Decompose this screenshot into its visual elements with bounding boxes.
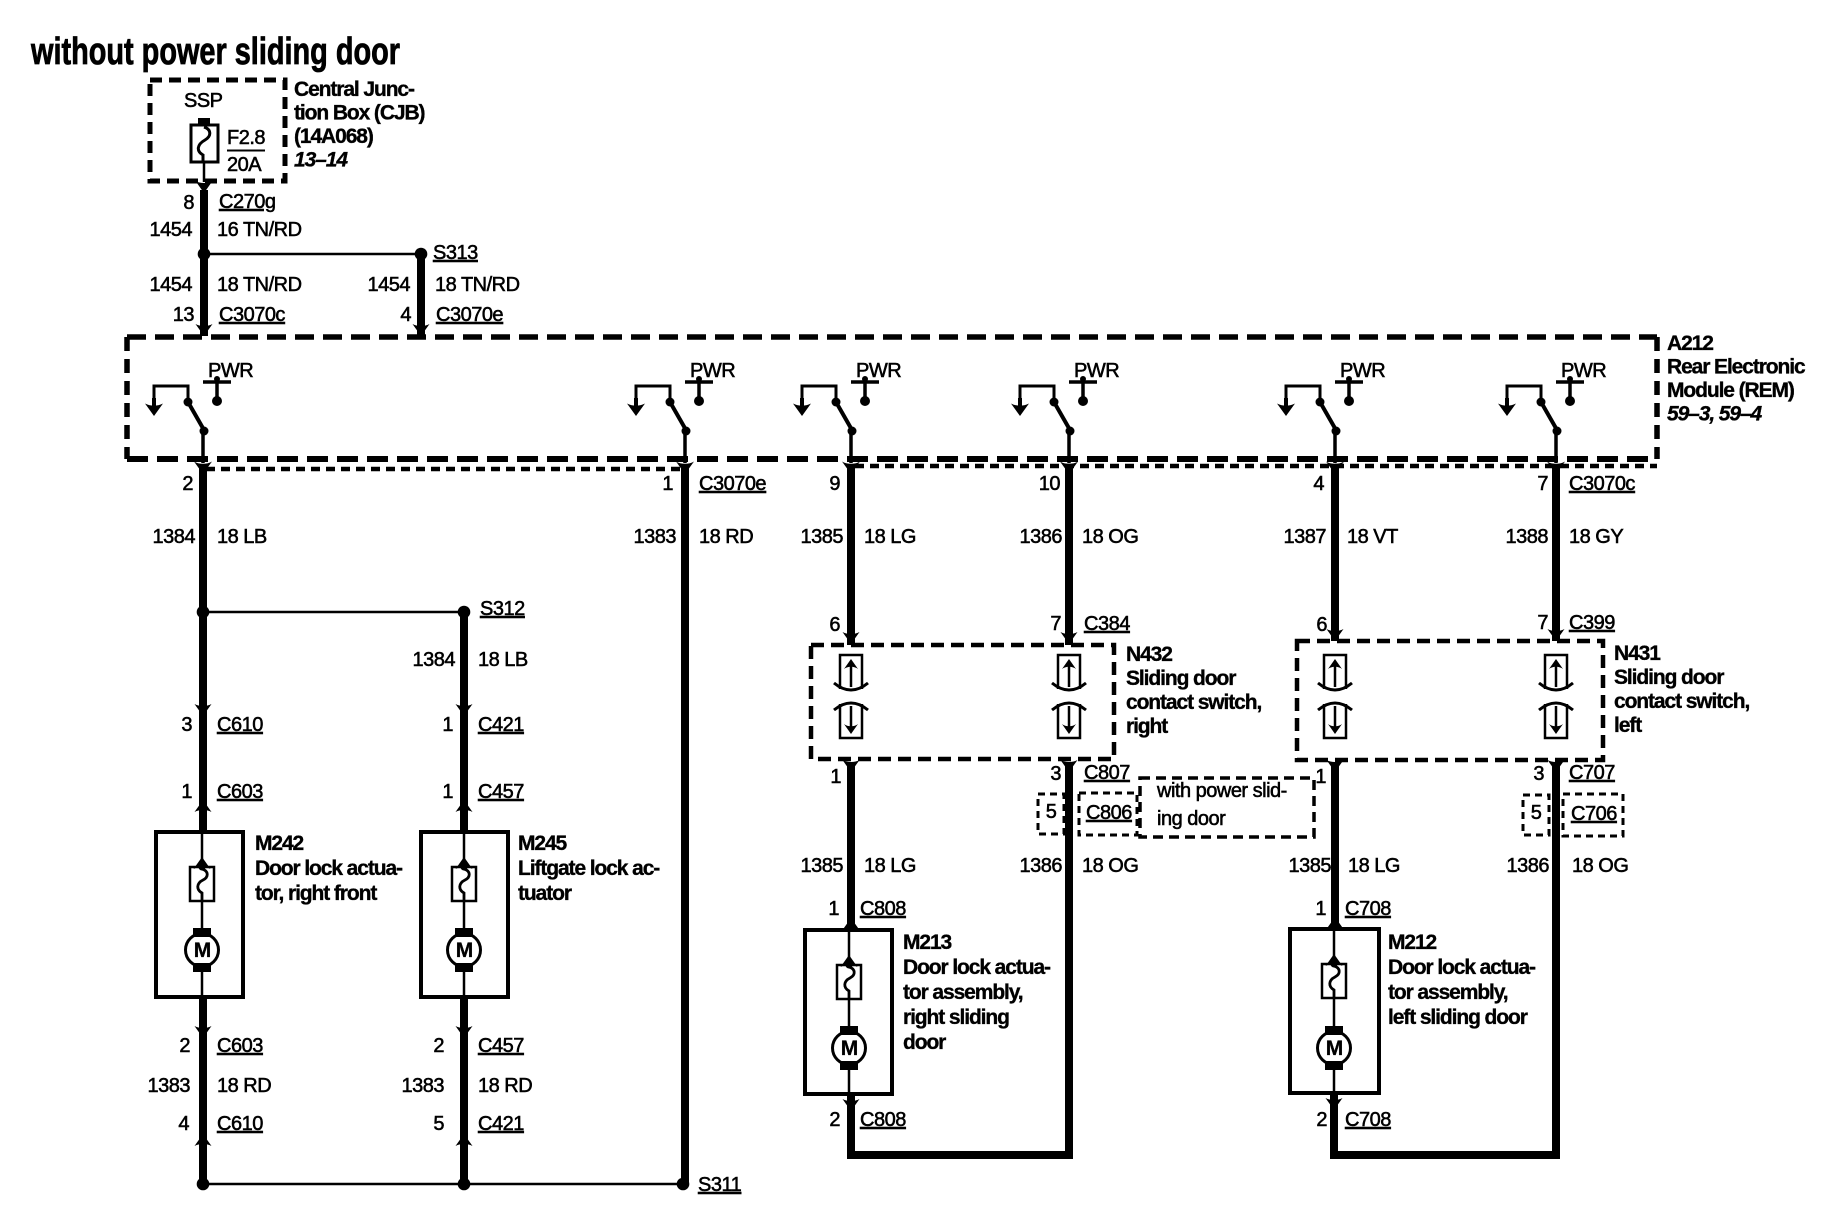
wire label 1387 18 VT	[1284, 526, 1399, 548]
wire 1454 16 TN/RD from CJB to REM	[200, 190, 208, 336]
svg-text:ing door: ing door	[1157, 808, 1226, 830]
N431 contact symbol left	[1318, 655, 1352, 738]
svg-text:Sliding door: Sliding door	[1614, 666, 1724, 689]
svg-text:1: 1	[442, 714, 453, 736]
M213 internal arrow	[841, 955, 858, 967]
svg-text:18 OG: 18 OG	[1082, 526, 1138, 548]
svg-text:C384: C384	[1084, 613, 1130, 635]
REM pin 7 connector C3070c	[1537, 473, 1635, 495]
PWR switch 5 in REM	[1277, 376, 1363, 474]
svg-text:N431: N431	[1614, 642, 1661, 665]
N432 pin 6	[829, 614, 840, 636]
M213 internal lead	[848, 930, 851, 966]
svg-text:C806: C806	[1086, 802, 1132, 824]
svg-text:7: 7	[1537, 473, 1548, 495]
CJB name label	[294, 78, 425, 172]
svg-text:5: 5	[1046, 801, 1057, 823]
N431 pin 7 connector C399	[1537, 612, 1615, 634]
connector 5 dashed box	[1038, 794, 1064, 834]
svg-text:9: 9	[829, 473, 840, 495]
arrow above S311 left	[195, 1134, 212, 1146]
wire label 1388 18 GY	[1506, 526, 1624, 548]
svg-text:C610: C610	[217, 714, 263, 736]
svg-text:right sliding: right sliding	[903, 1006, 1009, 1029]
junction dot left	[198, 248, 211, 261]
connector C706 dashed box	[1563, 794, 1623, 836]
wire label 1383 18 RD	[634, 526, 754, 548]
svg-text:7: 7	[1050, 613, 1061, 635]
svg-text:6: 6	[1316, 614, 1327, 636]
A212 Rear Electronic Module (REM) dashed box	[127, 337, 1657, 459]
M245 internal arrow	[456, 857, 473, 869]
PWR label 3	[856, 360, 901, 382]
wire label 1383 18 RD left	[148, 1075, 272, 1097]
pin 13 connector C3070c	[173, 304, 286, 326]
svg-text:18 LB: 18 LB	[478, 649, 528, 671]
svg-text:C807: C807	[1084, 762, 1130, 784]
arrow at C610	[195, 704, 212, 716]
junction dot at S312 left	[197, 606, 210, 619]
REM lower connector dashed line	[206, 467, 681, 472]
arrow above S311 mid	[456, 1134, 473, 1146]
svg-text:Module (REM): Module (REM)	[1667, 379, 1794, 402]
N432 contact symbol right	[1052, 655, 1086, 738]
M212 internal arrow	[1326, 954, 1343, 966]
N431 pin 6	[1316, 614, 1327, 636]
svg-text:1384: 1384	[153, 526, 196, 548]
svg-text:PWR: PWR	[208, 360, 253, 382]
fuse value label F2.8/20A	[227, 127, 265, 176]
wire 1383 18 RD below M242	[199, 997, 207, 1184]
svg-text:59–3, 59–4: 59–3, 59–4	[1667, 403, 1763, 426]
svg-text:C421: C421	[478, 1113, 524, 1135]
svg-text:2: 2	[433, 1035, 444, 1057]
wire 1387 18 VT from REM pin 4 to N431	[1331, 465, 1339, 641]
svg-text:1383: 1383	[402, 1075, 445, 1097]
wire 1385 18 LG from REM pin 9 to N432	[847, 465, 855, 645]
svg-text:C708: C708	[1345, 898, 1391, 920]
M242 motor M	[186, 928, 219, 972]
REM pin 4	[1313, 473, 1324, 495]
svg-text:20A: 20A	[227, 154, 262, 176]
svg-text:PWR: PWR	[690, 360, 735, 382]
M242 name label	[255, 832, 403, 905]
S312 label	[480, 598, 525, 620]
svg-text:SSP: SSP	[184, 90, 223, 112]
pin 8 connector C270g	[183, 191, 275, 214]
svg-text:tuator: tuator	[518, 882, 572, 905]
M245 lock solenoid	[452, 864, 476, 902]
svg-text:2: 2	[829, 1109, 840, 1131]
title	[30, 31, 400, 73]
svg-text:1454: 1454	[150, 219, 193, 241]
M212 lock solenoid	[1322, 961, 1346, 999]
svg-text:C3070e: C3070e	[436, 304, 503, 326]
wire label 1454 16 TN/RD	[150, 219, 302, 241]
REM name label A212	[1667, 332, 1806, 426]
PWR label 1	[208, 360, 253, 382]
svg-text:C3070c: C3070c	[1569, 473, 1635, 495]
S313 label	[433, 242, 478, 264]
svg-text:C603: C603	[217, 781, 263, 803]
svg-text:S311: S311	[698, 1174, 742, 1196]
PWR switch 3 in REM	[793, 376, 879, 474]
wire from N432 pin 3 down and around to M213	[851, 762, 1069, 1155]
svg-text:1383: 1383	[148, 1075, 191, 1097]
svg-text:contact switch,: contact switch,	[1126, 691, 1261, 714]
svg-text:M212: M212	[1388, 931, 1437, 954]
REM pin 2	[182, 473, 193, 495]
S313 branch wire down to REM	[417, 254, 425, 336]
svg-text:1: 1	[828, 898, 839, 920]
M212 lead solenoid to motor	[1333, 998, 1336, 1028]
svg-text:3: 3	[181, 714, 192, 736]
wire label 1384 18 LB branch	[413, 649, 528, 671]
svg-text:with power slid-: with power slid-	[1156, 780, 1287, 802]
arrow below M212	[1326, 1098, 1343, 1110]
svg-text:Sliding door: Sliding door	[1126, 667, 1236, 690]
REM pin 9	[829, 473, 840, 495]
svg-text:S312: S312	[480, 598, 525, 620]
M213 lock solenoid	[837, 962, 861, 1000]
svg-text:contact switch,: contact switch,	[1614, 690, 1749, 713]
pin 1 connector C421	[442, 714, 524, 736]
svg-text:door: door	[903, 1031, 946, 1054]
PWR label 5	[1340, 360, 1385, 382]
svg-text:F2.8: F2.8	[227, 127, 265, 149]
M245 name label	[518, 832, 660, 905]
svg-text:C421: C421	[478, 714, 524, 736]
svg-text:18 RD: 18 RD	[699, 526, 753, 548]
svg-text:18 GY: 18 GY	[1569, 526, 1623, 548]
pin 4 connector C610 lower	[178, 1113, 263, 1135]
M245 liftgate lock actuator box	[421, 832, 508, 997]
svg-text:2: 2	[1316, 1109, 1327, 1131]
M213 door lock actuator assembly box	[805, 930, 892, 1094]
pin 2 connector C603 lower	[179, 1035, 263, 1057]
svg-text:C808: C808	[860, 898, 906, 920]
svg-text:1: 1	[181, 781, 192, 803]
M242 internal arrow	[194, 857, 211, 869]
arrow into N432 pin 6	[843, 632, 860, 644]
PWR label 6	[1561, 360, 1606, 382]
svg-text:C610: C610	[217, 1113, 263, 1135]
arrow at C457	[456, 800, 473, 812]
svg-text:4: 4	[178, 1113, 189, 1135]
wire label 1385 18 LG right	[1289, 855, 1400, 877]
svg-text:M245: M245	[518, 832, 568, 855]
wire below N431 pin 1	[1331, 762, 1339, 929]
svg-text:5: 5	[1531, 802, 1542, 824]
S311 label	[698, 1174, 742, 1196]
splice S311 horizontal wire	[203, 1183, 685, 1186]
pin 4 connector C3070e	[400, 304, 503, 326]
arrow into N432 pin 7	[1061, 632, 1078, 644]
arrow below M242	[195, 1026, 212, 1038]
svg-text:5: 5	[433, 1113, 444, 1135]
svg-text:1: 1	[442, 781, 453, 803]
svg-text:1383: 1383	[634, 526, 677, 548]
wire 1383 18 RD below M245	[460, 997, 468, 1184]
wire label 1384 18 LB	[153, 526, 267, 548]
with power sliding door dashed note box	[1140, 778, 1314, 837]
arrow into N431 pin 7	[1548, 629, 1565, 641]
M212 motor M	[1318, 1026, 1351, 1070]
CJB label SSP	[184, 90, 223, 112]
svg-text:13–14: 13–14	[294, 149, 348, 172]
svg-text:1454: 1454	[150, 274, 193, 296]
fuse F2.8 20A	[191, 118, 218, 182]
wire 1454 18 TN/RD left branch	[150, 274, 302, 296]
svg-text:7: 7	[1537, 612, 1548, 634]
junction dot S311 mid	[458, 1178, 471, 1191]
svg-text:left: left	[1614, 714, 1642, 737]
svg-text:C399: C399	[1569, 612, 1615, 634]
connector C806 dashed box	[1079, 793, 1137, 835]
pin 5 connector C421 lower	[433, 1113, 524, 1135]
M242 lead motor to box bottom	[201, 970, 204, 997]
svg-text:1385: 1385	[801, 526, 844, 548]
M213 pin 1 connector C808	[828, 898, 906, 920]
svg-text:1386: 1386	[1020, 855, 1063, 877]
junction dot at S312 right	[458, 606, 471, 619]
wire label 1385 18 LG mid	[801, 855, 916, 877]
svg-text:1387: 1387	[1284, 526, 1327, 548]
svg-text:(14A068): (14A068)	[294, 125, 373, 148]
svg-text:16 TN/RD: 16 TN/RD	[217, 219, 302, 241]
PWR switch 1 in REM	[145, 376, 231, 474]
svg-text:10: 10	[1039, 473, 1061, 495]
N432 pin 1	[830, 766, 841, 788]
svg-text:M213: M213	[903, 931, 952, 954]
PWR switch 2 in REM	[627, 376, 713, 474]
M242 lock solenoid	[190, 864, 214, 902]
N432 sliding door contact switch box	[811, 645, 1114, 759]
svg-text:18 TN/RD: 18 TN/RD	[217, 274, 302, 296]
svg-text:18 OG: 18 OG	[1082, 855, 1138, 877]
svg-text:8: 8	[183, 192, 194, 214]
svg-text:1388: 1388	[1506, 526, 1549, 548]
N432 contact symbol left	[834, 655, 868, 738]
svg-text:S313: S313	[433, 242, 478, 264]
svg-text:right: right	[1126, 715, 1168, 738]
M245 internal lead	[463, 832, 466, 868]
arrow into REM at pin 13	[196, 324, 213, 336]
svg-text:Rear Electronic: Rear Electronic	[1667, 356, 1806, 379]
svg-text:Central Junc-: Central Junc-	[294, 78, 415, 101]
pin 2 connector C457 lower	[433, 1035, 524, 1057]
wire label 1386 18 OG mid	[1020, 855, 1139, 877]
M212 internal lead	[1333, 929, 1336, 965]
svg-text:1385: 1385	[1289, 855, 1332, 877]
svg-text:tion Box (CJB): tion Box (CJB)	[294, 102, 425, 125]
svg-text:18 RD: 18 RD	[478, 1075, 532, 1097]
N431 pin 1	[1315, 766, 1326, 788]
arrow below M245	[456, 1026, 473, 1038]
PWR label 4	[1074, 360, 1119, 382]
wire 1384 18 LB branch to M245	[460, 612, 468, 832]
svg-text:1: 1	[1315, 766, 1326, 788]
svg-text:C603: C603	[217, 1035, 263, 1057]
wire below N432 pin 1	[847, 762, 855, 930]
svg-text:1385: 1385	[801, 855, 844, 877]
svg-text:2: 2	[179, 1035, 190, 1057]
pin 1 connector C457	[442, 781, 524, 803]
svg-text:M242: M242	[255, 832, 304, 855]
svg-text:18 LG: 18 LG	[864, 526, 916, 548]
N432 pin 7 connector C384	[1050, 613, 1130, 635]
M212 lead motor to box bottom	[1333, 1068, 1336, 1093]
svg-text:18 RD: 18 RD	[217, 1075, 271, 1097]
M242 internal lead	[201, 832, 204, 868]
arrow into N431 pin 6	[1327, 629, 1344, 641]
M242 door lock actuator box	[156, 832, 243, 997]
svg-text:C808: C808	[860, 1109, 906, 1131]
svg-text:Door lock actua-: Door lock actua-	[903, 956, 1051, 979]
svg-text:C270g: C270g	[219, 191, 275, 213]
svg-text:PWR: PWR	[856, 360, 901, 382]
PWR label 2	[690, 360, 735, 382]
Central Junction Box (CJB) dashed box	[150, 80, 285, 181]
svg-text:C706: C706	[1571, 803, 1617, 825]
svg-text:2: 2	[182, 473, 193, 495]
svg-text:1: 1	[662, 473, 673, 495]
M213 motor M	[833, 1026, 866, 1070]
svg-text:18 OG: 18 OG	[1572, 855, 1628, 877]
svg-text:PWR: PWR	[1074, 360, 1119, 382]
N431 name label	[1614, 642, 1749, 737]
svg-text:C708: C708	[1345, 1109, 1391, 1131]
REM pin 10	[1039, 473, 1061, 495]
wire label 1383 18 RD mid	[402, 1075, 533, 1097]
junction dot S311 right	[677, 1178, 690, 1191]
svg-text:C457: C457	[478, 781, 524, 803]
svg-text:18 LG: 18 LG	[864, 855, 916, 877]
N431 pin 3 connector C707	[1533, 762, 1615, 785]
svg-text:18 VT: 18 VT	[1347, 526, 1398, 548]
svg-text:4: 4	[400, 304, 411, 326]
svg-text:1384: 1384	[413, 649, 456, 671]
wire 1454 18 TN/RD right branch	[368, 274, 520, 296]
wire from N431 pin 3 down and around to M212	[1334, 762, 1556, 1155]
svg-text:N432: N432	[1126, 643, 1172, 666]
wire 1383 18 RD from REM pin 1 down	[681, 465, 689, 1184]
arrow at C421	[456, 704, 473, 716]
svg-text:18 LB: 18 LB	[217, 526, 267, 548]
svg-text:6: 6	[829, 614, 840, 636]
N431 contact symbol right	[1539, 655, 1573, 738]
REM pin 1 connector C3070e	[662, 473, 766, 495]
svg-text:tor assembly,: tor assembly,	[903, 981, 1023, 1004]
svg-text:without power sliding door: without power sliding door	[30, 31, 400, 73]
PWR switch 6 in REM	[1498, 376, 1584, 474]
pin 3 connector C610	[181, 714, 263, 736]
M212 name label	[1388, 931, 1536, 1029]
M213 name label	[903, 931, 1051, 1054]
splice S313 horizontal wire	[204, 253, 421, 256]
M245 lead solenoid to motor	[463, 901, 466, 930]
wire 1388 18 GY from REM pin 7 to N431	[1552, 465, 1560, 641]
svg-text:PWR: PWR	[1340, 360, 1385, 382]
M212 door lock actuator assembly box	[1290, 929, 1379, 1093]
arrow below M213	[843, 1099, 860, 1111]
svg-text:1: 1	[1315, 898, 1326, 920]
svg-text:1454: 1454	[368, 274, 411, 296]
svg-text:tor, right front: tor, right front	[255, 882, 377, 905]
svg-text:Door lock actua-: Door lock actua-	[1388, 956, 1536, 979]
wire label 1386 18 OG right	[1507, 855, 1629, 877]
arrow below N432 pin 3	[1061, 760, 1078, 772]
M213 lead motor to box bottom	[848, 1068, 851, 1094]
wire label 1386 18 OG	[1020, 526, 1139, 548]
arrow below N431 pin 3	[1548, 760, 1565, 772]
svg-text:1386: 1386	[1507, 855, 1550, 877]
M242 lead solenoid to motor	[201, 901, 204, 930]
splice S312 horizontal wire	[203, 611, 464, 614]
junction dot S311 left	[197, 1178, 210, 1191]
svg-text:1: 1	[830, 766, 841, 788]
svg-text:3: 3	[1533, 763, 1544, 785]
svg-text:C707: C707	[1569, 762, 1615, 784]
svg-text:13: 13	[173, 304, 195, 326]
svg-text:3: 3	[1050, 763, 1061, 785]
arrow into REM at pin 4	[413, 324, 430, 336]
arrow at C603	[195, 800, 212, 812]
PWR switch 4 in REM	[1011, 376, 1097, 474]
svg-text:4: 4	[1313, 473, 1324, 495]
arrow below N432 pin 1	[843, 760, 860, 772]
svg-text:Door lock actua-: Door lock actua-	[255, 857, 403, 880]
pin 1 connector C603	[181, 781, 263, 803]
wire 1386 18 OG from REM pin 10 to N432	[1065, 465, 1073, 645]
svg-text:18 LG: 18 LG	[1348, 855, 1400, 877]
N431 sliding door contact switch box	[1297, 641, 1603, 760]
arrow below CJB	[196, 181, 213, 193]
svg-text:C3070e: C3070e	[699, 473, 766, 495]
M245 motor M	[448, 928, 481, 972]
svg-text:C457: C457	[478, 1035, 524, 1057]
junction dot S313	[415, 248, 428, 261]
N432 name label	[1126, 643, 1261, 738]
svg-text:A212: A212	[1667, 332, 1713, 355]
M245 lead motor to box bottom	[463, 970, 466, 997]
N432 pin 3 connector C807	[1050, 762, 1130, 785]
connector 5 dashed box right	[1523, 795, 1549, 835]
svg-text:left sliding door: left sliding door	[1388, 1006, 1528, 1029]
wire label 1385 18 LG	[801, 526, 916, 548]
svg-text:1386: 1386	[1020, 526, 1063, 548]
arrow into M213 pin 1	[843, 918, 860, 930]
M212 pin 2 connector C708	[1316, 1109, 1391, 1131]
REM lower connector dashed line right segment	[855, 464, 1657, 469]
arrow into M212 pin 1	[1327, 917, 1344, 929]
svg-text:18 TN/RD: 18 TN/RD	[435, 274, 520, 296]
wire 1384 18 LB from REM pin 2 down to M242	[199, 465, 207, 832]
M213 lead solenoid to motor	[848, 999, 851, 1028]
M212 pin 1 connector C708	[1315, 898, 1391, 920]
svg-text:tor assembly,: tor assembly,	[1388, 981, 1508, 1004]
arrow below N431 pin 1	[1327, 760, 1344, 772]
svg-text:Liftgate lock ac-: Liftgate lock ac-	[518, 857, 660, 880]
svg-text:C3070c: C3070c	[219, 304, 285, 326]
svg-text:PWR: PWR	[1561, 360, 1606, 382]
M213 pin 2 connector C808	[829, 1109, 906, 1131]
